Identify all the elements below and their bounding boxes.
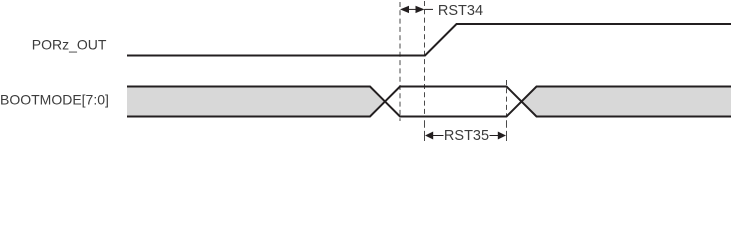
- svg-text:BOOTMODE[7:0]: BOOTMODE[7:0]: [0, 92, 109, 108]
- dashed guide line t3 BOOTMODE invalid: [506, 80, 508, 117]
- bus BOOTMODE gray fill left segment: [127, 87, 385, 117]
- dimension RST34 right arrowhead: [416, 6, 425, 13]
- svg-text:PORz_OUT: PORz_OUT: [32, 36, 107, 52]
- svg-text:RST34: RST34: [438, 3, 483, 19]
- dimension RST34 shaft: [408, 8, 417, 10]
- dimension RST34 leader line: [425, 8, 434, 10]
- bus BOOTMODE outline upper weave: [127, 87, 731, 117]
- dashed guide line t1 BOOTMODE valid: [399, 2, 401, 121]
- dimension RST35 left arrowhead: [425, 132, 433, 140]
- dimension RST35 right arrowhead: [498, 132, 506, 140]
- svg-text:RST35: RST35: [444, 128, 489, 144]
- dashed guide line t3 lower dashes: [506, 120, 508, 127]
- dashed guide line t2 lower dashes: [424, 120, 426, 127]
- wire PORz_OUT waveform: [127, 24, 731, 56]
- dimension RST35 left shaft: [433, 135, 444, 137]
- dimension RST34 left arrowhead: [400, 6, 409, 13]
- bus BOOTMODE gray fill right segment: [522, 87, 731, 117]
- bus BOOTMODE outline lower weave: [127, 87, 731, 117]
- dimension RST35 right shaft: [490, 135, 500, 137]
- dashed guide line t2 PORz rise: [424, 1, 426, 117]
